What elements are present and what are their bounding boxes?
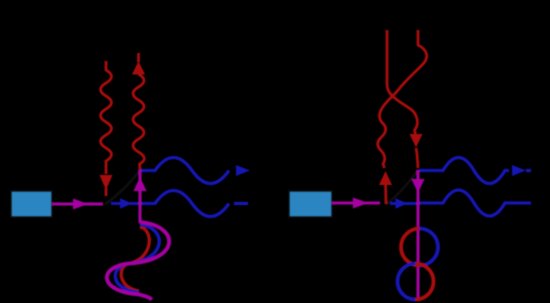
loop bundle: blue S-curve [115,225,159,293]
arrowhead (down) on magenta vertical [412,179,425,193]
loop bundle: magenta S-curve [107,222,169,300]
internal fermion (blue) horizontal segment [390,202,420,205]
arrowhead on upper blue wavy [512,165,526,176]
internal fermion (blue) horizontal segment [111,202,143,205]
arrowhead on blue horizontal segment [396,198,408,208]
arrowhead on magenta incoming line [73,199,88,210]
arrowhead on blue horizontal segment [120,198,133,208]
arrowhead (down) on red line 1 [100,175,113,190]
lower loop: red right half [416,264,434,300]
internal scalar line (magenta vertical, straight through loops) [417,170,420,301]
upper outgoing wavy line (blue) [419,158,509,184]
crossed red wavy line B (top-right to bottom-left) [378,30,427,204]
fermion line (black, invisible on bg) V1 to V2 [105,170,140,204]
upper loop: blue right half [420,229,439,266]
end dash after arrowhead [526,169,531,172]
arrowhead (down) on red line A [410,134,423,148]
lower outgoing wavy line (blue) [141,191,229,217]
effective-vertex box (teal square) [11,191,52,217]
internal scalar line (magenta vertical) [139,170,142,223]
effective-vertex box (teal square) [289,191,332,217]
arrowhead at end of upper blue wavy [236,165,250,176]
arrowhead (up) on magenta vertical [134,177,147,191]
lower loop: blue left half [398,264,416,300]
incoming fermion line (magenta) [52,203,103,206]
arrowhead (up) on red line B [379,171,392,185]
incoming fermion line (magenta) [332,202,380,205]
arrowhead on magenta incoming line [353,198,368,209]
crossed red wavy line A (top-left to bottom-right) [387,30,418,168]
lower outgoing wavy line (blue) [419,190,531,216]
arrowhead (up) on red line 2 [132,61,145,75]
photon/W line 2 (red wavy, right) [133,53,144,170]
upper loop: red left half [401,229,420,266]
photon/W line 1 (red wavy, left) [101,61,112,196]
upper outgoing wavy line (blue) [141,158,229,184]
end dash of lower blue wavy [234,202,248,205]
loop bundle: red S-curve [121,227,149,291]
fermion line (black, invisible) V1 to V2 [386,170,418,204]
